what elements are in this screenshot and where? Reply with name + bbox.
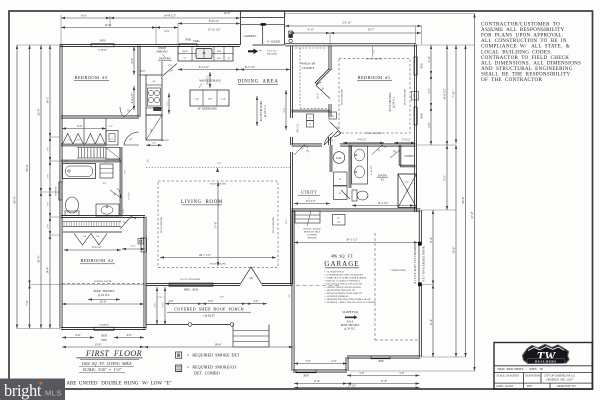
entry arrow — [248, 49, 258, 55]
bedroom2 closet dim 3-4 — [122, 245, 145, 251]
dining area label — [238, 80, 279, 85]
porch label — [167, 307, 251, 318]
entry header note — [259, 49, 277, 55]
hall shelf boxes — [307, 114, 314, 127]
svg-text:8'-0": 8'-0" — [283, 108, 286, 113]
ceiling break dotted — [146, 159, 292, 172]
svg-text:4'-0": 4'-0" — [220, 296, 225, 299]
svg-text:#1: #1 — [381, 178, 385, 182]
bedroom1 door — [324, 131, 338, 145]
title block outer — [494, 343, 592, 390]
porch slab edge — [146, 323, 234, 327]
svg-text:12'-0": 12'-0" — [99, 300, 107, 304]
right dim extenders — [285, 14, 475, 372]
kitchen sink — [196, 49, 212, 59]
svg-text:-- AS HOUSE WINDOWS: -- AS HOUSE WINDOWS — [324, 295, 349, 298]
svg-text:6'-6": 6'-6" — [81, 13, 88, 17]
dining dim 8-7 — [240, 65, 290, 71]
svg-text:7'-0": 7'-0" — [25, 299, 29, 306]
svg-text:4'-6": 4'-6" — [75, 333, 81, 337]
svg-text:3050: 3050 — [303, 375, 309, 378]
left dim col 2 lower — [25, 285, 31, 329]
window note — [30, 381, 172, 386]
bottom dim total — [294, 384, 420, 388]
bath2 right wall — [120, 147, 122, 217]
kitchen range — [148, 88, 161, 106]
svg-text:BUILDERS: BUILDERS — [535, 359, 557, 363]
svg-text:11'-6": 11'-6" — [314, 380, 320, 383]
svg-text:8'-7 1/2": 8'-7 1/2" — [245, 65, 256, 69]
svg-text:D: D — [339, 192, 341, 195]
svg-text:CAB: CAB — [194, 98, 199, 101]
tray ceiling label left — [341, 89, 344, 106]
svg-text:23'-11": 23'-11" — [342, 20, 352, 24]
water heater — [333, 152, 345, 164]
svg-text:TRAY CEILING: TRAY CEILING — [366, 132, 383, 135]
svg-text:7'-0": 7'-0" — [162, 303, 165, 308]
svg-text:CORNER TRIM: CORNER TRIM — [391, 270, 406, 272]
svg-text:8'-3 1/2": 8'-3 1/2" — [199, 65, 210, 69]
bath1 door — [372, 145, 386, 155]
svg-text:3'-11": 3'-11" — [428, 56, 431, 62]
porch dims row — [165, 300, 267, 305]
svg-text:4'-5": 4'-5" — [164, 30, 169, 33]
svg-text:-- TO HOUSE -- MIN 8" TREADS,: -- TO HOUSE -- MIN 8" TREADS, MAX 8 1/4"… — [324, 301, 376, 304]
svg-text:= REQUIRED SMOKE/CO: = REQUIRED SMOKE/CO — [187, 364, 236, 369]
left dim col 4 b — [48, 137, 52, 161]
watermark mls text — [45, 389, 62, 398]
bedroom3 bottom wall — [61, 116, 139, 118]
svg-text:LANDING: LANDING — [244, 35, 257, 38]
svg-text:CITY OF CRISFIELD & CO.: CITY OF CRISFIELD & CO. — [544, 374, 576, 377]
svg-text:14'-4": 14'-4" — [46, 266, 50, 274]
svg-text:11'-6": 11'-6" — [381, 380, 387, 383]
svg-text:@ 24' O.C.: @ 24' O.C. — [393, 96, 396, 108]
svg-text:4'-4 1/2": 4'-4 1/2" — [358, 139, 367, 142]
svg-text:-- 7/12 ROOF PITCH: -- 7/12 ROOF PITCH — [324, 272, 344, 274]
closet bifold doors east — [86, 134, 106, 145]
svg-text:3'-1": 3'-1" — [104, 162, 108, 164]
bottom dim garage rows — [294, 360, 420, 377]
svg-text:17'-6": 17'-6" — [215, 222, 218, 229]
left dim col 4 d — [48, 192, 52, 217]
svg-text:3050: 3050 — [414, 94, 416, 98]
left dim extenders — [17, 45, 146, 329]
bedroom1 dims bottom — [343, 139, 415, 144]
top exterior wall left section — [60, 44, 240, 46]
utility label — [298, 190, 320, 201]
svg-text:20'-6": 20'-6" — [452, 247, 456, 254]
garage window left — [296, 370, 316, 378]
svg-text:18'-6": 18'-6" — [215, 342, 222, 346]
svg-text:DET. COMBO: DET. COMBO — [194, 371, 220, 376]
bathtub — [63, 160, 96, 179]
bedroom3 door — [120, 107, 134, 117]
svg-text:CRISFIELD MD. 21817: CRISFIELD MD. 21817 — [546, 378, 574, 381]
svg-text:10'-1": 10'-1" — [317, 93, 320, 99]
svg-text:FRIG: FRIG — [193, 40, 199, 43]
title block col lines — [524, 373, 551, 390]
svg-text:BEDROOM #3: BEDROOM #3 — [75, 75, 108, 80]
svg-text:-- TOP OF WINDOWS TO BE SAME: -- TOP OF WINDOWS TO BE SAME HT. — [324, 292, 363, 295]
window 3050 bedroom3 — [91, 39, 114, 52]
bath1 dim — [352, 202, 414, 207]
left dim col 4 f — [46, 235, 52, 329]
svg-text:-- SEE SECTION FOR WALL HT.: -- SEE SECTION FOR WALL HT. — [324, 289, 356, 292]
svg-text:TRAY CEILING: TRAY CEILING — [366, 58, 383, 61]
svg-text:2'-6": 2'-6" — [405, 182, 409, 184]
hall closet box — [329, 112, 337, 119]
svg-text:SLOPE FLR: SLOPE FLR — [342, 310, 357, 314]
garage left wall — [292, 210, 294, 371]
svg-text:-- ON GARAGE WALLS AND GARAGE: -- ON GARAGE WALLS AND GARAGE — [324, 283, 363, 286]
svg-text:5'-3": 5'-3" — [167, 101, 169, 105]
living room bottom wall right — [262, 283, 292, 285]
svg-text:12'-3 1/2": 12'-3 1/2" — [377, 202, 388, 205]
svg-text:SCREEN: SCREEN — [98, 49, 107, 52]
svg-text:-- 4" REINFORCED CONC. SLAB O: -- 4" REINFORCED CONC. SLAB OVER — [324, 274, 363, 277]
svg-text:8'-6 1/2": 8'-6 1/2" — [207, 76, 210, 85]
attic access box — [333, 215, 346, 226]
svg-text:↑30": ↑30" — [336, 221, 340, 224]
svg-text:HEADER: HEADER — [267, 52, 277, 55]
svg-text:3/0 C.O.: 3/0 C.O. — [297, 123, 300, 133]
garage door note — [304, 228, 321, 240]
svg-text:5'-9": 5'-9" — [399, 372, 404, 375]
svg-text:-- CEILING (TAPED AND SPACKLE: -- CEILING (TAPED AND SPACKLED) — [324, 286, 361, 289]
svg-text:19'-1 1/2": 19'-1 1/2" — [346, 238, 359, 242]
utility-bath bottom wall — [292, 209, 421, 211]
svg-text:DATE: 6/22/03: DATE: 6/22/03 — [497, 385, 514, 388]
slider label — [267, 40, 280, 43]
svg-text:T&W BUILDERS: - SPEC 16: T&W BUILDERS: - SPEC 16 — [497, 367, 543, 371]
svg-text:24": 24" — [152, 80, 155, 83]
svg-text:TEMPERED: TEMPERED — [55, 185, 57, 196]
living area note — [79, 361, 134, 367]
right dim col garage — [430, 210, 434, 357]
svg-text:11'-0": 11'-0" — [430, 237, 433, 243]
watermark orange dot — [39, 382, 42, 385]
svg-text:5'-9": 5'-9" — [359, 372, 364, 375]
bedroom1 roof trusses — [389, 92, 396, 111]
tray ceiling label top — [366, 46, 383, 61]
svg-text:45'-0": 45'-0" — [461, 196, 465, 204]
svg-text:4'-8": 4'-8" — [428, 122, 431, 127]
garage label — [324, 254, 359, 269]
svg-text:2'-1": 2'-1" — [109, 125, 114, 128]
waste storage note — [199, 80, 221, 89]
stairs rails — [77, 148, 106, 159]
svg-text:3050: 3050 — [421, 63, 424, 69]
svg-text:10'-6": 10'-6" — [37, 255, 41, 263]
porch left edge — [145, 285, 147, 325]
svg-text:3'-6": 3'-6" — [48, 202, 50, 206]
porch steps — [233, 325, 269, 348]
porch posts — [289, 31, 293, 43]
garage door opening right — [413, 242, 425, 286]
bedroom1 entry wall — [329, 137, 331, 145]
walk-in closet label — [301, 62, 316, 71]
frig label — [193, 40, 199, 43]
watermark backdrop — [0, 379, 65, 400]
garage trusses note — [341, 321, 360, 331]
title block location cell — [526, 374, 576, 381]
linen closet — [399, 145, 415, 167]
svg-text:W.H.: W.H. — [336, 157, 342, 160]
walk-in closet bottom wall — [292, 110, 331, 112]
first floor title — [77, 349, 143, 360]
svg-text:3/0: 3/0 — [249, 277, 253, 280]
living tray ceiling dashed — [158, 181, 278, 268]
garage front wall left — [293, 370, 347, 372]
living center dim — [215, 182, 220, 266]
bottom dim bedroom2 row2 — [62, 342, 144, 348]
svg-text:-- COMP. FILL W/ 10 MIL VAPOR: -- COMP. FILL W/ 10 MIL VAPOR BARRIER — [324, 277, 367, 280]
svg-text:@ 24' O.C.: @ 24' O.C. — [264, 104, 267, 117]
bedroom1 bottom wall — [292, 144, 323, 146]
central wall upper — [290, 46, 292, 119]
svg-text:36": 36" — [150, 128, 153, 131]
svg-text:8'-11 1/2": 8'-11 1/2" — [370, 165, 373, 174]
garage dashed storage — [375, 233, 418, 340]
top dim row1 right — [285, 20, 422, 27]
bath1 vanity — [352, 146, 368, 184]
bottom dim porch row — [144, 342, 293, 348]
garage corner dim — [285, 220, 288, 225]
right dim col A upper — [428, 45, 432, 145]
contractor note text — [481, 22, 581, 84]
living room label — [181, 200, 223, 205]
svg-text:9'-4 1/2": 9'-4 1/2" — [92, 246, 102, 249]
svg-text:1'-0": 1'-0" — [374, 49, 376, 53]
central wall cased opening — [297, 123, 300, 133]
kitchen dim 8-3 — [178, 65, 240, 71]
title block drawn cell — [557, 385, 576, 388]
svg-text:15": 15" — [227, 58, 230, 60]
svg-text:13'-0": 13'-0" — [95, 342, 102, 346]
sideboard note — [197, 108, 216, 111]
dim 8-4 vertical kitchen wall — [130, 86, 135, 110]
left exterior wall — [60, 45, 62, 329]
svg-text:2'-8": 2'-8" — [48, 224, 50, 228]
bedroom2 closet bifold doors — [74, 234, 107, 246]
svg-text:5'-7 1/2": 5'-7 1/2" — [128, 192, 131, 200]
right dim col D — [461, 45, 466, 357]
landing bump-out outline — [241, 11, 285, 45]
bottom exterior wall bedroom2 — [61, 327, 146, 329]
bath2 top wall — [61, 160, 121, 162]
left dim col 3 lower — [37, 192, 43, 329]
garage slope note — [342, 310, 357, 319]
svg-text:12'-6": 12'-6" — [104, 23, 112, 27]
window 3050 bedroom1 right upper — [414, 57, 424, 75]
top dim row2 right — [290, 28, 421, 35]
svg-text:9 X 7 ON GARAGE DOOR: 9 X 7 ON GARAGE DOOR — [422, 245, 426, 281]
dim 4-5 vertical kitchen wall — [130, 47, 135, 76]
svg-text:2'-0 1/2": 2'-0 1/2" — [402, 139, 411, 142]
svg-text:DW30: DW30 — [182, 51, 189, 53]
svg-text:2'-4": 2'-4" — [152, 141, 157, 144]
svg-text:16" SIDEBOARD: 16" SIDEBOARD — [197, 108, 216, 111]
bath2 dims — [123, 170, 131, 213]
svg-text:2'-4": 2'-4" — [168, 64, 173, 67]
kitchen side dim — [167, 93, 170, 114]
svg-text:6'-0": 6'-0" — [77, 125, 82, 128]
svg-text:3'-4": 3'-4" — [131, 245, 136, 248]
svg-text:5'-2": 5'-2" — [428, 88, 431, 93]
svg-text:LINEN: LINEN — [405, 154, 415, 158]
svg-text:4'-5": 4'-5" — [130, 57, 134, 64]
svg-text:2'-0": 2'-0" — [217, 163, 221, 165]
landing label — [244, 35, 257, 38]
walk-in closet shelves dashed — [295, 48, 327, 109]
bedroom2 roof trusses note — [88, 290, 120, 301]
top dim extenders — [61, 14, 422, 46]
svg-text:4'-6": 4'-6" — [168, 300, 173, 303]
bedroom2 door — [120, 217, 136, 230]
svg-text:5'-0": 5'-0" — [64, 160, 69, 163]
pantry door diagonal — [163, 64, 177, 76]
svg-text:|3050: |3050 — [101, 339, 107, 342]
svg-text:TRAY CEILING: TRAY CEILING — [403, 89, 406, 106]
stairs risers — [79, 148, 104, 159]
garage front jog — [346, 357, 348, 371]
closet bifold doors west — [63, 134, 84, 145]
kitchen island — [190, 90, 229, 106]
pantry walls — [139, 61, 162, 75]
svg-text:22'-6": 22'-6" — [37, 108, 41, 116]
left dim col 4 a — [46, 45, 52, 137]
title block row lines — [494, 366, 592, 383]
svg-text:5'-9": 5'-9" — [305, 360, 310, 363]
svg-text:BEDROOM #2: BEDROOM #2 — [81, 258, 114, 263]
filler note — [160, 140, 169, 142]
svg-text:14'-9 1/2": 14'-9 1/2" — [164, 13, 177, 17]
smoke co icon — [176, 365, 182, 372]
svg-text:3050: 3050 — [100, 39, 107, 43]
svg-text:(1) 1 3/4" & 18" LVL HEADER: (1) 1 3/4" & 18" LVL HEADER — [413, 243, 417, 284]
tray ceiling label bottom — [366, 132, 383, 135]
left dim col 4 c — [48, 161, 52, 192]
scale note — [79, 367, 125, 373]
svg-text:ROOF TRUSSES: ROOF TRUSSES — [94, 290, 115, 293]
garage corner trim note — [391, 270, 406, 272]
walk-in closet right wall upper — [329, 46, 331, 71]
svg-text:6'-0": 6'-0" — [141, 70, 146, 73]
bath2 door — [110, 188, 121, 198]
svg-text:@ 24' O.C.: @ 24' O.C. — [98, 294, 111, 297]
utility dim — [294, 200, 330, 205]
svg-text:7830: 7830 — [185, 38, 192, 42]
smoke co text — [187, 364, 236, 375]
svg-text:14'-6": 14'-6" — [223, 11, 231, 15]
roof trusses note dining — [256, 96, 267, 126]
bath1 door lower — [341, 190, 350, 199]
svg-text:LOWER LEVEL: LOWER LEVEL — [94, 280, 113, 283]
utility right wall — [330, 145, 332, 172]
svg-text:SCREEN: SCREEN — [99, 323, 108, 326]
right dim col E — [470, 14, 475, 372]
svg-text:DRAWN BY: WS: DRAWN BY: WS — [557, 385, 576, 388]
walk-in closet door — [316, 82, 330, 99]
washer dryer — [334, 172, 348, 200]
svg-text:4'-6": 4'-6" — [126, 333, 132, 337]
right exterior wall house — [414, 45, 416, 213]
svg-text:9'-2": 9'-2" — [443, 175, 447, 181]
svg-text:4'-0": 4'-0" — [48, 174, 50, 178]
svg-text:WALK-IN: WALK-IN — [301, 62, 316, 66]
garage dashed door swing — [296, 285, 340, 287]
bedroom2 smoke det box — [138, 239, 144, 245]
svg-text:43'-6": 43'-6" — [13, 195, 17, 203]
hall dim — [300, 147, 304, 150]
svg-text:bright: bright — [4, 381, 42, 400]
svg-text:UTILITY: UTILITY — [301, 190, 317, 195]
svg-text:FIRST FLOOR: FIRST FLOOR — [85, 349, 142, 358]
svg-text:47'-0": 47'-0" — [470, 211, 474, 219]
bedroom2 dim 9-4 — [64, 246, 121, 251]
svg-text:36'-0": 36'-0" — [25, 163, 29, 171]
svg-text:2'-6": 2'-6" — [125, 170, 127, 174]
garage right wall upper — [419, 210, 421, 243]
title block scale cell — [497, 374, 519, 377]
svg-text:6' SLIDER: 6' SLIDER — [267, 40, 280, 43]
window 3050 bedroom2 bottom — [94, 323, 114, 337]
svg-text:GARAGE: GARAGE — [324, 260, 359, 268]
svg-text:26'-7 1/2": 26'-7 1/2" — [199, 253, 212, 257]
svg-text:15'-10 1/2": 15'-10 1/2" — [207, 28, 221, 32]
svg-text:SCALE: AS NOTED: SCALE: AS NOTED — [497, 374, 519, 377]
svg-text:3050: 3050 — [101, 334, 108, 338]
svg-text:7'-11": 7'-11" — [452, 91, 456, 98]
garage front wall right — [347, 356, 420, 358]
svg-text:11'-6": 11'-6" — [430, 319, 433, 325]
svg-text:(2) 2 X 12 HEADER: (2) 2 X 12 HEADER — [180, 278, 201, 281]
svg-text:10: 10 — [309, 124, 311, 126]
bedroom2 closet shelf band — [63, 222, 122, 232]
bottom dim bedroom2 row1 — [62, 333, 144, 342]
left wall window tempered — [55, 182, 62, 200]
closet front wall below bedroom3 — [61, 144, 106, 146]
svg-text:1824 SQ. FT. LIVING AREA: 1824 SQ. FT. LIVING AREA — [82, 361, 132, 366]
left dim col 2 upper — [25, 45, 31, 285]
svg-text:SCALE: 3/16" = 1'-0": SCALE: 3/16" = 1'-0" — [83, 367, 122, 372]
kitchen counter labels — [182, 51, 231, 60]
bath2 vanity — [96, 204, 119, 216]
kitchen lower cabinet — [146, 115, 162, 140]
closet dim row — [62, 125, 113, 130]
title block name row — [497, 367, 543, 371]
bedroom1 bottom wall right — [340, 144, 416, 146]
wic dim — [317, 93, 320, 99]
svg-text:= REQUIRED SMOKE DET: = REQUIRED SMOKE DET — [187, 353, 240, 358]
garage entry steps — [295, 211, 320, 226]
closet partition — [84, 118, 106, 145]
svg-text:7'-6": 7'-6" — [158, 296, 163, 299]
top exterior wall right section — [285, 44, 416, 46]
bedroom2 lower-level dashed — [62, 280, 144, 284]
svg-text:CAB: CAB — [221, 98, 226, 101]
svg-text:486 SQ. FT.: 486 SQ. FT. — [331, 254, 354, 259]
svg-text:OF THE CONTRACTOR: OF THE CONTRACTOR — [481, 77, 542, 83]
porch door gable — [240, 267, 262, 285]
walk-in closet angled wall — [315, 69, 331, 85]
svg-text:3'-0": 3'-0" — [285, 220, 288, 225]
top dim row2 left — [61, 19, 240, 45]
svg-text:136 SQ FT: 136 SQ FT — [203, 315, 215, 318]
right dim col B — [443, 45, 449, 210]
bath1 label — [377, 174, 388, 182]
